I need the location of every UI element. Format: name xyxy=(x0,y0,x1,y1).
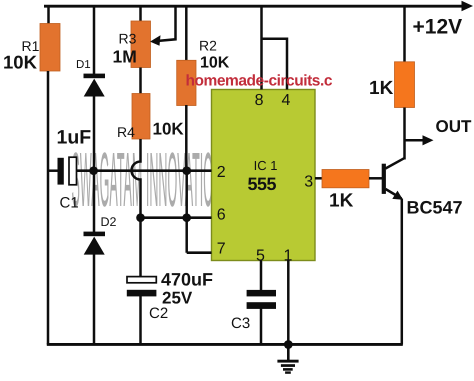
node junction dot pin1 at ground rail xyxy=(284,340,293,349)
svg-text:R4: R4 xyxy=(117,124,135,140)
wire +12V top rail xyxy=(44,5,464,8)
wire R3 top lead xyxy=(139,6,142,22)
svg-text:1uF: 1uF xyxy=(57,127,92,149)
wire node2 main horizontal (C1 to pin 2) xyxy=(77,169,212,172)
svg-text:4: 4 xyxy=(282,92,291,109)
wire collector lead down to Q1 xyxy=(403,108,406,160)
wire R2 bottom lead to node 2 xyxy=(185,105,188,171)
transistor Q1 emitter diagonal xyxy=(386,189,402,199)
svg-text:555: 555 xyxy=(248,174,277,194)
wire pin 1 lead xyxy=(287,261,290,345)
wire R4 bottom lead with hop over node wire xyxy=(132,139,141,218)
wire D2 bottom lead xyxy=(93,254,96,345)
svg-text:BC547: BC547 xyxy=(407,198,463,218)
resistor R1 body xyxy=(40,24,60,72)
svg-text:C3: C3 xyxy=(231,315,250,332)
capacitor C3 top plate xyxy=(247,290,276,297)
resistor R2 body xyxy=(177,60,196,105)
svg-text:1K: 1K xyxy=(369,78,394,99)
node junction dot R4-C2-pin6 xyxy=(136,213,145,222)
wire R1 bottom lead / left branch down to ground rail xyxy=(47,71,50,345)
svg-text:D1: D1 xyxy=(76,59,91,71)
node junction dot R2 at node 2 xyxy=(182,166,191,175)
diode D1 cathode bar xyxy=(84,74,106,79)
wire 1K collector resistor top lead xyxy=(403,6,406,63)
wire D1 top lead xyxy=(93,6,96,75)
wire base lead to Q1 xyxy=(369,177,383,180)
svg-text:OUT: OUT xyxy=(436,117,473,136)
wire C2 top lead xyxy=(139,218,142,277)
wire R1 top lead xyxy=(47,6,50,25)
wire pin 8 lead xyxy=(260,6,263,90)
wire C2 bottom lead xyxy=(139,296,142,345)
capacitor C3 bottom plate xyxy=(247,302,276,309)
wire ground bottom rail xyxy=(47,343,403,346)
capacitor C2 negative plate xyxy=(127,290,157,297)
svg-text:5: 5 xyxy=(256,247,265,264)
wire R2 top lead xyxy=(185,6,188,61)
wire pin 3 lead xyxy=(315,177,323,180)
wire R3 wiper arm from +12V xyxy=(157,6,176,41)
wire pin 7 xyxy=(187,251,212,254)
svg-text:R2: R2 xyxy=(199,38,217,54)
resistor R3 body (1M preset) xyxy=(131,21,151,68)
svg-text:C1: C1 xyxy=(60,195,79,212)
svg-text:IC 1: IC 1 xyxy=(254,158,278,173)
wire node vertical linking pins 2-6-7 xyxy=(185,171,188,253)
wire pin 5 lead xyxy=(260,261,263,291)
node Q1 emitter arrowhead xyxy=(392,191,403,200)
node junction dot pin6-pin7 tie xyxy=(182,213,191,222)
capacitor C1 right plate xyxy=(69,157,77,185)
wire C1 left stub xyxy=(48,169,58,172)
svg-text:+12V: +12V xyxy=(413,16,463,39)
svg-text:2: 2 xyxy=(217,164,226,181)
resistor R4 body xyxy=(132,94,150,140)
svg-text:R3: R3 xyxy=(119,31,137,47)
transistor Q1 collector diagonal xyxy=(386,158,405,168)
wire OUT branch xyxy=(405,139,426,142)
transistor Q1 base bar xyxy=(382,164,386,194)
wire pin 4 branch xyxy=(262,39,288,90)
svg-text:470uF: 470uF xyxy=(161,270,213,290)
svg-text:D2: D2 xyxy=(101,215,117,229)
diode D2 triangle xyxy=(84,237,105,255)
node +12V arrowhead xyxy=(462,1,474,12)
svg-text:10K: 10K xyxy=(200,55,230,72)
capacitor C1 left plate xyxy=(58,158,64,185)
wire Q1 emitter lead to ground rail xyxy=(401,199,404,345)
svg-text:7: 7 xyxy=(217,241,226,258)
capacitor C2 positive plate xyxy=(127,277,156,283)
svg-text:SWAGATAM INNOVATIONS: SWAGATAM INNOVATIONS xyxy=(72,137,231,223)
svg-text:8: 8 xyxy=(255,92,264,109)
node OUT arrowhead xyxy=(423,135,434,145)
node junction dot C1-D1-D2 xyxy=(89,166,98,175)
node R3 wiper arrowhead xyxy=(150,35,161,46)
diode D2 cathode bar xyxy=(84,232,106,237)
svg-text:3: 3 xyxy=(304,174,313,191)
svg-text:1: 1 xyxy=(284,247,293,264)
ground symbol xyxy=(277,344,298,374)
svg-text:10K: 10K xyxy=(3,52,38,73)
resistor R5 1K base body xyxy=(322,170,369,188)
svg-text:1K: 1K xyxy=(329,191,354,212)
svg-text:C2: C2 xyxy=(149,305,168,322)
IC U1 555 body xyxy=(212,90,316,261)
wire R3 to R4 link xyxy=(139,68,142,95)
wire pin 6 xyxy=(141,216,212,219)
resistor R6 1K collector body xyxy=(395,62,415,108)
wire D1 to D2 link xyxy=(93,96,96,232)
svg-text:1M: 1M xyxy=(113,47,137,67)
diode D1 triangle xyxy=(84,79,105,97)
svg-text:10K: 10K xyxy=(153,120,185,139)
svg-text:homemade-circuits.c: homemade-circuits.c xyxy=(186,73,333,90)
svg-text:6: 6 xyxy=(217,207,226,224)
wire C3 bottom lead xyxy=(260,309,263,345)
